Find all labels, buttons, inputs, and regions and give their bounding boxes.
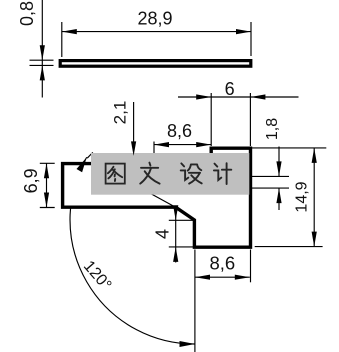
dim 6 ext lines: [211, 93, 250, 146]
dim 4 ticks: [169, 220, 194, 247]
svg-text:120°: 120°: [80, 258, 115, 294]
arrow 1,8 bottom: [276, 188, 281, 203]
arrow 28,9 right: [236, 29, 251, 34]
dim 0,8 ext ticks: [30, 60, 54, 65]
svg-text:8,6: 8,6: [209, 253, 235, 274]
arrow 8,6 bottom right: [235, 275, 250, 280]
watermark char ji: [214, 163, 231, 184]
profile cross-section: [63, 148, 251, 247]
arrow arc bottom: [180, 341, 196, 347]
dim 6 line: [178, 96, 299, 98]
dim 4 line: [175, 204, 177, 263]
arrow 6,9 top: [44, 163, 49, 178]
watermark char she: [181, 163, 202, 183]
watermark box: [91, 153, 249, 195]
svg-text:6,9: 6,9: [21, 168, 41, 193]
dim 14,9 line: [313, 148, 315, 247]
dim 14,9 ticks: [252, 148, 327, 247]
dim 8,6 bottom ext right: [250, 250, 252, 283]
arrow 6,9 bottom: [44, 193, 49, 208]
diagonal edge extension thin: [151, 194, 177, 208]
dim 28,9 line: [62, 31, 251, 33]
arrow 0,8 top: [40, 45, 45, 60]
svg-text:2,1: 2,1: [111, 101, 130, 125]
arrow 4 bottom: [173, 247, 178, 262]
svg-text:6: 6: [225, 79, 235, 99]
arrow 4 top: [173, 205, 178, 220]
dim 8,6 bottom line: [195, 276, 250, 278]
svg-text:0,8: 0,8: [17, 1, 37, 26]
arrow 8,6 mid left: [154, 142, 169, 147]
dim 1,8 line: [278, 147, 280, 211]
arrow 0,8 bottom: [40, 65, 45, 80]
arrow 6 right (outside): [250, 94, 265, 99]
svg-text:8,6: 8,6: [167, 121, 192, 141]
arrow 14,9 top: [312, 148, 317, 163]
arrow 8,6 bottom left: [195, 275, 210, 280]
arc overshoot tick: [87, 152, 93, 158]
flat bar: [60, 61, 251, 67]
arrow 28,9 left: [62, 29, 77, 34]
arrow 8,6 mid right: [196, 142, 211, 147]
svg-text:4: 4: [153, 229, 173, 239]
dim 8,6 mid ext: [153, 142, 155, 154]
arrow 14,9 bottom: [312, 232, 317, 247]
svg-text:28,9: 28,9: [137, 8, 172, 28]
feature lines 1,8: [251, 176, 289, 188]
watermark char tu: [106, 164, 125, 184]
arrow arc top: [77, 157, 87, 172]
dim 6,9 ticks: [40, 163, 55, 207]
svg-text:1,8: 1,8: [264, 118, 281, 140]
arrow 2,1: [131, 141, 136, 156]
dim 6,9 line: [46, 163, 48, 207]
dim 8,6 bottom ext left / angle edge extension: [194, 250, 196, 352]
arrow 1,8 top: [276, 161, 281, 176]
arrow 6 left (outside): [196, 94, 211, 99]
dim 0,8 line: [41, 0, 43, 98]
dim 8,6 mid line: [154, 144, 211, 146]
dim 28,9 ext lines: [62, 22, 251, 57]
dim 2,1 line: [133, 102, 135, 146]
angle arc 120: [70, 157, 194, 344]
watermark char wen: [140, 163, 159, 184]
svg-text:14,9: 14,9: [294, 181, 311, 212]
